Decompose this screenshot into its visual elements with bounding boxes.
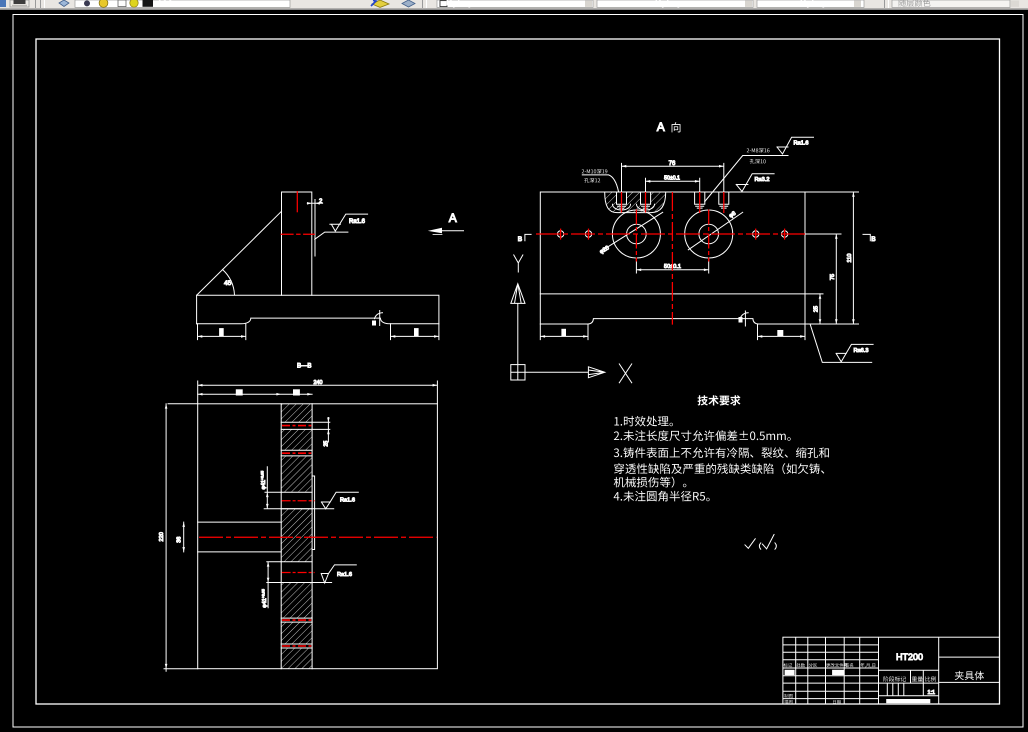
svg-text:240: 240 [314,380,323,386]
svg-text:100: 100 [157,0,173,10]
svg-text:B—B: B—B [297,363,311,370]
svg-text:50±0.1: 50±0.1 [664,175,680,181]
svg-text:76: 76 [669,161,676,167]
svg-text:Ra1.6: Ra1.6 [349,219,366,225]
svg-text:36: 36 [177,537,183,543]
svg-text:B: B [518,236,523,243]
svg-text:Ra1.6: Ra1.6 [794,141,809,147]
svg-text:HT200: HT200 [896,652,923,662]
svg-text:ByLayer: ByLayer [446,0,482,7]
svg-text:A: A [657,120,665,134]
svg-text:1:1: 1:1 [928,690,936,696]
svg-text:ByLayer: ByLayer [800,0,836,7]
svg-text:45: 45 [224,280,232,287]
svg-text:Ra1.6: Ra1.6 [337,572,352,578]
svg-text:A: A [449,211,457,225]
svg-text:Ra3.2: Ra3.2 [755,177,770,183]
svg-text:Ra1.6: Ra1.6 [340,497,355,503]
svg-text:110: 110 [847,254,853,263]
svg-text:Ra6.3: Ra6.3 [854,348,869,354]
svg-text:75: 75 [830,274,836,280]
svg-text:220: 220 [159,532,165,541]
svg-text:ByLayer: ByLayer [655,0,691,7]
svg-text:25: 25 [323,441,329,447]
svg-text:B: B [871,236,876,243]
svg-text:25: 25 [814,306,820,312]
